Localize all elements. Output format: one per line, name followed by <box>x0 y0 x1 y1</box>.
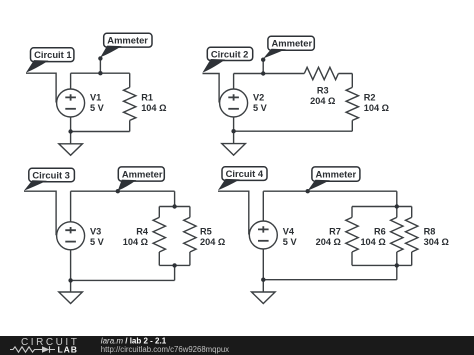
svg-text:Circuit 4: Circuit 4 <box>226 168 264 179</box>
svg-text:LAB: LAB <box>58 345 78 355</box>
svg-text:R8: R8 <box>424 226 436 236</box>
svg-text:Circuit 2: Circuit 2 <box>211 48 249 59</box>
svg-text:5 V: 5 V <box>90 103 105 113</box>
svg-text:204 Ω: 204 Ω <box>316 237 341 247</box>
svg-text:Ammeter: Ammeter <box>272 38 313 49</box>
svg-text:R2: R2 <box>364 92 376 102</box>
svg-text:V3: V3 <box>90 226 101 236</box>
svg-text:R4: R4 <box>136 226 149 236</box>
svg-text:104 Ω: 104 Ω <box>360 237 385 247</box>
svg-text:Circuit 1: Circuit 1 <box>34 49 72 60</box>
svg-text:Ammeter: Ammeter <box>122 168 163 179</box>
svg-text:R3: R3 <box>317 86 329 96</box>
svg-text:5 V: 5 V <box>90 237 105 247</box>
svg-text:204 Ω: 204 Ω <box>310 96 335 106</box>
svg-text:5 V: 5 V <box>253 103 268 113</box>
svg-text:5 V: 5 V <box>283 237 298 247</box>
svg-text:Ammeter: Ammeter <box>107 35 148 46</box>
svg-text:V4: V4 <box>283 226 295 236</box>
svg-text:Ammeter: Ammeter <box>316 169 357 180</box>
svg-text:104 Ω: 104 Ω <box>123 237 148 247</box>
svg-text:http://circuitlab.com/c76w9268: http://circuitlab.com/c76w9268mqpux <box>101 345 229 354</box>
svg-text:R1: R1 <box>141 92 153 102</box>
svg-text:R5: R5 <box>200 226 212 236</box>
svg-text:304 Ω: 304 Ω <box>424 237 449 247</box>
svg-text:104 Ω: 104 Ω <box>364 103 389 113</box>
svg-text:R7: R7 <box>329 226 341 236</box>
svg-text:204 Ω: 204 Ω <box>200 237 225 247</box>
svg-text:Circuit 3: Circuit 3 <box>32 169 70 180</box>
svg-text:V2: V2 <box>253 92 264 102</box>
svg-text:R6: R6 <box>374 226 386 236</box>
svg-text:104 Ω: 104 Ω <box>141 103 166 113</box>
svg-text:V1: V1 <box>90 92 101 102</box>
